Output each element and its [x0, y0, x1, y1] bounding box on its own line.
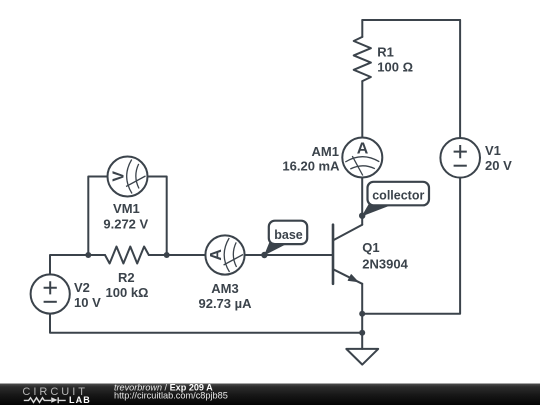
wire Q1 emitter down to ground: [361, 284, 363, 349]
wire node B to AM3: [167, 254, 206, 256]
ammeter AM1: [342, 138, 382, 178]
node collector anchor dot: [359, 213, 365, 219]
voltmeter VM1: [108, 157, 148, 197]
wire R2 to node B: [149, 254, 167, 256]
resistor R2: [105, 247, 149, 264]
wire R1 top lead: [361, 20, 363, 37]
voltage source V1: [440, 138, 480, 178]
svg-text:R1: R1: [377, 44, 394, 59]
svg-text:base: base: [274, 228, 303, 242]
svg-text:V: V: [111, 171, 128, 182]
logo diode triangle: [51, 397, 57, 403]
ammeter AM3: [205, 235, 244, 274]
node junction dot C: [359, 311, 365, 317]
svg-text:16.20 mA: 16.20 mA: [282, 158, 340, 173]
wire node A up to VM1 left terminal: [88, 177, 107, 256]
wire V2 bottom to node D: [50, 314, 362, 333]
resistor R1: [354, 37, 371, 81]
svg-text:2N3904: 2N3904: [362, 256, 408, 271]
node junction dot D: [359, 330, 365, 336]
svg-text:LAB: LAB: [69, 395, 91, 405]
svg-text:collector: collector: [372, 189, 424, 203]
ground: [346, 349, 378, 365]
node base anchor dot: [261, 252, 267, 258]
wire top rail R1 to V1: [362, 19, 460, 21]
wire Q1 collector up to AM1: [361, 178, 363, 225]
voltage source V2: [31, 274, 70, 313]
svg-text:AM3: AM3: [211, 281, 238, 296]
svg-text:A: A: [208, 249, 225, 261]
svg-text:V1: V1: [485, 143, 501, 158]
svg-text:V2: V2: [74, 280, 90, 295]
svg-text:http://circuitlab.com/c8pjb85: http://circuitlab.com/c8pjb85: [114, 391, 228, 401]
svg-text:10 V: 10 V: [74, 295, 101, 310]
logo schematic squiggle: [24, 397, 66, 403]
node junction dot B: [164, 252, 170, 258]
node junction dot A: [85, 252, 91, 258]
wire AM1 top to R1: [361, 81, 363, 137]
svg-text:AM1: AM1: [312, 144, 339, 159]
svg-text:R2: R2: [118, 270, 135, 285]
wire VM1 right terminal down to node B: [148, 177, 167, 256]
wire node A to R2: [88, 254, 105, 256]
svg-text:9.272 V: 9.272 V: [103, 217, 148, 232]
footer bar: [0, 384, 540, 405]
svg-text:92.73 µA: 92.73 µA: [198, 296, 252, 311]
wire V1 top: [459, 20, 461, 138]
svg-text:VM1: VM1: [113, 201, 140, 216]
wire AM3 to Q1 base: [245, 254, 333, 256]
flag label collector: [362, 182, 430, 217]
svg-text:100 kΩ: 100 kΩ: [106, 285, 149, 300]
svg-text:20 V: 20 V: [485, 158, 512, 173]
svg-text:A: A: [357, 141, 369, 158]
wire V1 bottom to node C: [362, 178, 460, 314]
flag label base: [264, 221, 307, 256]
svg-text:100 Ω: 100 Ω: [377, 60, 413, 75]
wire V2 top to node A: [50, 255, 88, 275]
transistor Q1: [333, 225, 362, 284]
svg-text:Q1: Q1: [362, 240, 379, 255]
